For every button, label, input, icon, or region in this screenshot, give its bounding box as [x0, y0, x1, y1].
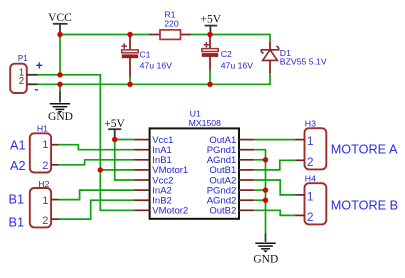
- ground symbol GND left: [48, 92, 73, 123]
- svg-text:C1: C1: [139, 49, 150, 59]
- svg-text:1: 1: [307, 134, 314, 148]
- wire U1 OutB1 to H3 pin 2: [254, 160, 295, 170]
- junction AGnd2 on GND bus: [263, 198, 268, 203]
- IC U1 MX1508 body: [150, 108, 239, 218]
- wire U1 OutA1 to H3 pin 1: [254, 139, 295, 141]
- svg-text:MX1508: MX1508: [189, 118, 222, 128]
- svg-text:GND: GND: [253, 254, 278, 266]
- svg-text:-: -: [34, 82, 38, 96]
- svg-text:1: 1: [42, 139, 48, 151]
- U1 left pin stubs (pins 1-8): [135, 140, 150, 211]
- junction P1 pin 1 / VCC: [57, 72, 62, 77]
- svg-text:47u 16V: 47u 16V: [221, 60, 254, 70]
- svg-text:MOTORE A: MOTORE A: [331, 143, 398, 157]
- wire U1 OutA2 to H4 pin 1: [254, 180, 295, 195]
- connector P1: [10, 54, 43, 96]
- junction C1 bottom: [127, 82, 132, 87]
- wire VMotor1 branch: [100, 169, 134, 171]
- svg-text:+: +: [36, 58, 43, 72]
- svg-text:2: 2: [307, 155, 314, 169]
- connector H1: [30, 123, 59, 172]
- svg-text:BZV55 5.1V: BZV55 5.1V: [280, 56, 327, 66]
- junction C2 bottom: [207, 82, 212, 87]
- svg-text:2: 2: [19, 76, 24, 87]
- svg-text:A2: A2: [10, 159, 26, 173]
- svg-text:+5V: +5V: [104, 118, 125, 130]
- svg-text:47u 16V: 47u 16V: [140, 60, 173, 70]
- junction VCC node: [57, 32, 62, 37]
- svg-text:OutB2: OutB2: [209, 206, 236, 217]
- wire U1 OutB2 to H4 pin 2: [254, 210, 295, 215]
- junction +5V node 2: [112, 137, 117, 142]
- wire VCC rail (VCC node to R1 left): [59, 34, 151, 36]
- svg-text:220: 220: [164, 19, 179, 29]
- zener diode D1: [261, 42, 327, 73]
- wire D1 top branch: [269, 35, 270, 44]
- svg-text:H1: H1: [37, 123, 48, 133]
- U1 right pin names: [207, 135, 237, 217]
- svg-text:+5V: +5V: [201, 14, 222, 26]
- power symbol +5V no.1: [201, 14, 222, 33]
- wire H1 pin 2 to U1 InB1: [58, 160, 135, 165]
- wire PGnd2 to GND bus: [254, 189, 265, 191]
- svg-text:VCC: VCC: [48, 12, 72, 24]
- junction P1 pin 2 / GND stub: [57, 82, 62, 87]
- connector H4: [295, 174, 326, 225]
- wire P1 pin 1 to VMotor1/VMotor2 bus: [37, 75, 135, 211]
- wire H2 pin 1 to U1 InA2: [58, 190, 135, 200]
- wire PGnd1 to GND bus down to ground: [254, 150, 265, 235]
- svg-text:1: 1: [307, 190, 314, 204]
- wire VCC node down to P1 pin 1: [59, 34, 61, 76]
- U1 right pin stubs (pins 9-16): [239, 140, 254, 211]
- svg-text:2: 2: [42, 215, 48, 227]
- svg-text:A1: A1: [10, 139, 26, 153]
- wire +5V node 2 down to U1 Vcc2: [115, 139, 135, 180]
- svg-text:2: 2: [42, 160, 48, 172]
- C2 polarity plus mark: [204, 44, 210, 46]
- wire D1 bottom branch: [269, 72, 271, 85]
- junction AGnd1 on GND bus: [263, 157, 268, 162]
- wire AGnd2 to GND bus: [254, 199, 265, 201]
- power symbol +5V no.2: [104, 118, 125, 138]
- ground symbol GND right: [253, 234, 278, 266]
- C1 polarity plus mark: [121, 45, 127, 47]
- capacitor C1: [121, 35, 172, 86]
- junction PGnd2 on GND bus: [263, 187, 268, 192]
- connector H2: [30, 179, 59, 227]
- wire H1 pin 1 to U1 InA1: [58, 145, 135, 150]
- svg-text:B1: B1: [9, 216, 25, 230]
- svg-text:C2: C2: [221, 49, 232, 59]
- svg-text:GND: GND: [48, 111, 73, 123]
- wire AGnd1 to GND bus: [254, 159, 265, 161]
- wire +5V node 2 to U1 Vcc1: [115, 139, 135, 141]
- svg-text:1: 1: [42, 195, 48, 207]
- junction VMotor1 branch: [98, 167, 103, 172]
- svg-text:P1: P1: [18, 54, 28, 63]
- junction C1 top: [127, 32, 132, 37]
- wire GND stub under P1: [59, 84, 61, 92]
- wire +5V rail (R1 right to D1 corner): [190, 34, 270, 36]
- capacitor C2: [202, 35, 253, 86]
- svg-text:H4: H4: [305, 174, 316, 184]
- svg-text:H2: H2: [38, 179, 49, 189]
- svg-text:2: 2: [307, 210, 314, 224]
- svg-text:MOTORE B: MOTORE B: [331, 199, 398, 213]
- wire H2 pin 2 to U1 InB2: [58, 200, 135, 219]
- U1 left pin names: [152, 135, 188, 217]
- power symbol VCC: [48, 12, 72, 32]
- wire GND- rail (P1 pin 2 to D1 bottom corner): [37, 83, 270, 85]
- svg-text:B1: B1: [9, 193, 25, 207]
- resistor R1: [149, 10, 191, 40]
- connector H3: [295, 119, 326, 170]
- svg-text:VMotor2: VMotor2: [152, 206, 188, 217]
- svg-text:U1: U1: [190, 108, 201, 118]
- svg-text:H3: H3: [305, 119, 316, 129]
- junction +5V node 1 / C2 top: [207, 32, 212, 37]
